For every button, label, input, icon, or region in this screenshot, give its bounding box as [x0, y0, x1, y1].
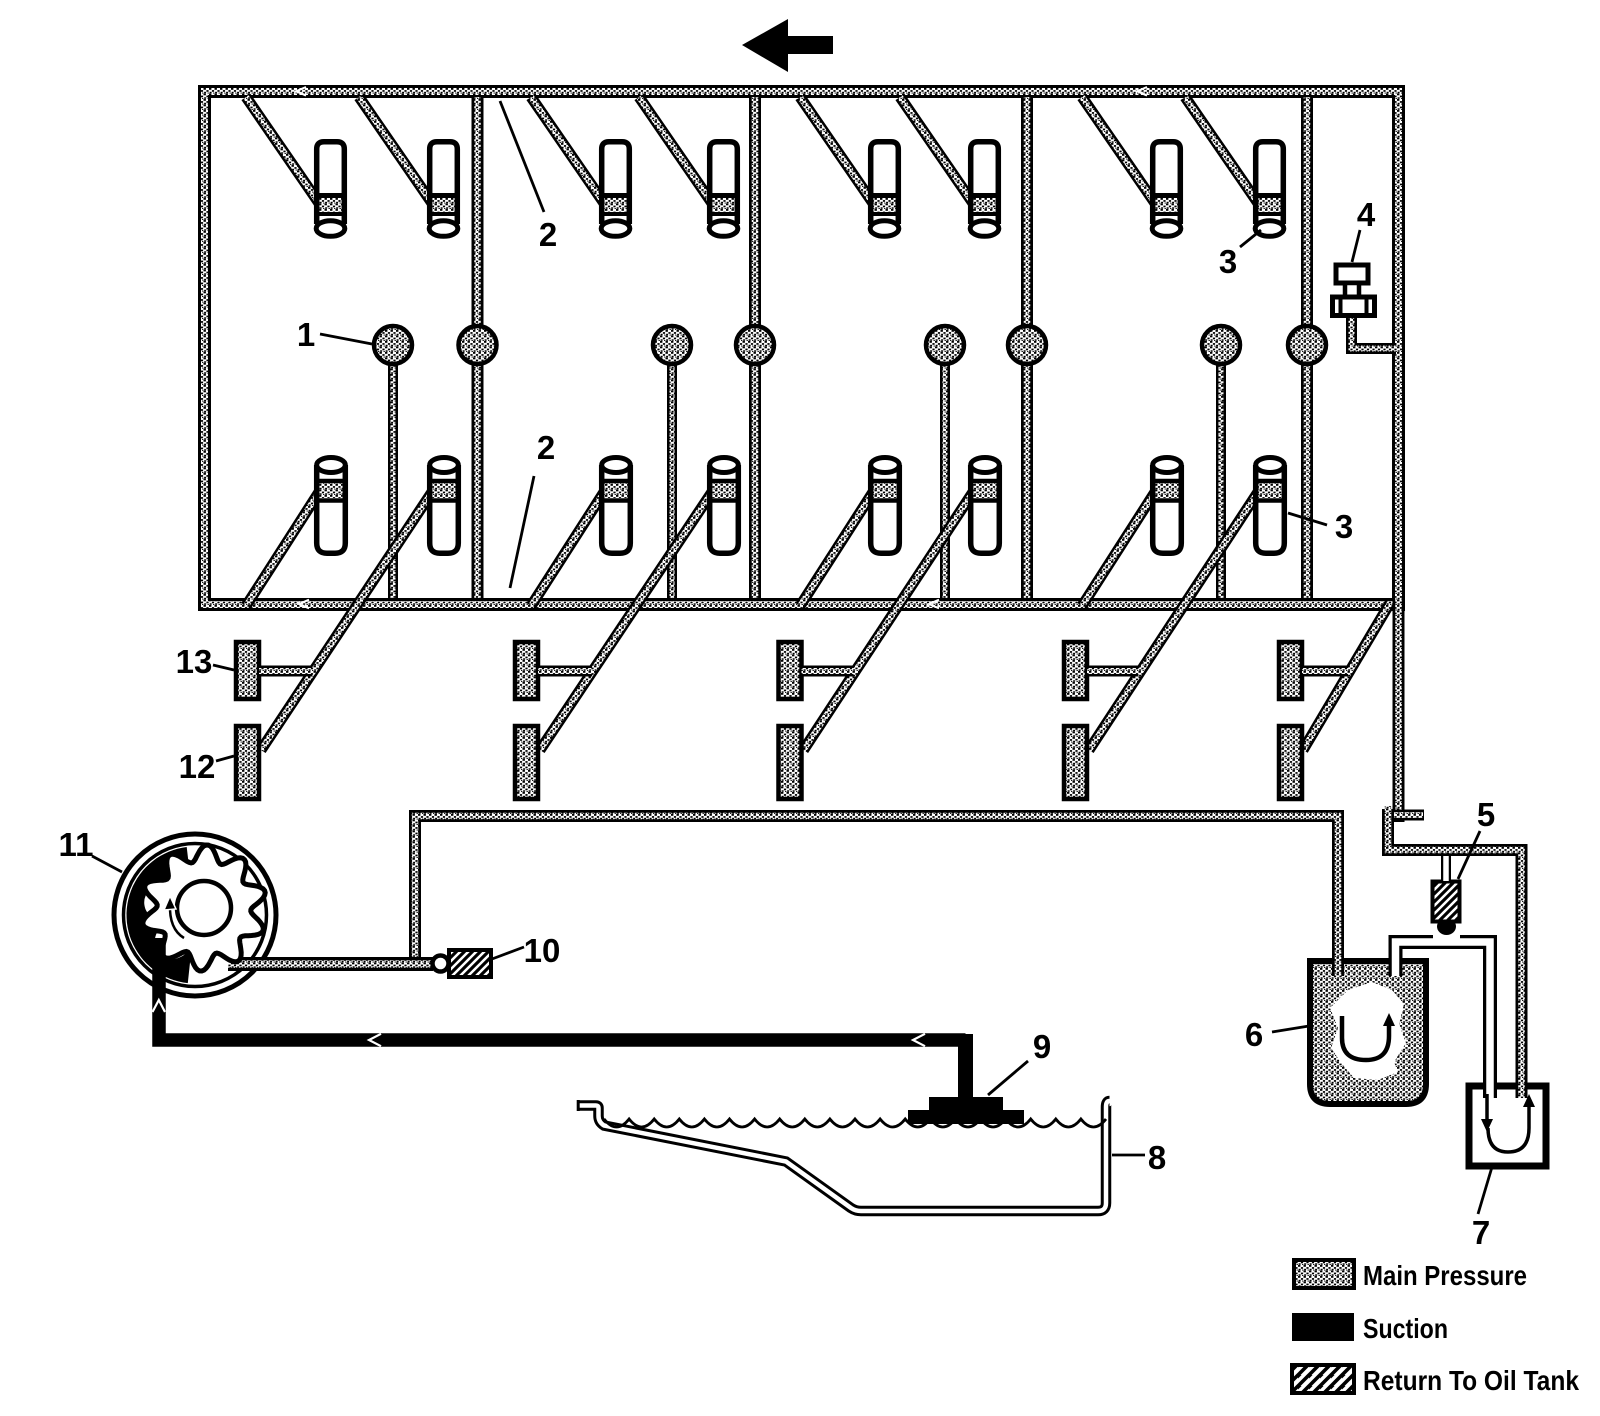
wire: lifter feed pipe cell 2-1 (top bank): [531, 97, 606, 206]
wire: main oil gallery (pump riser + horizontal run + filter feed): [415, 816, 1338, 965]
node: oil level wavy line: [604, 1119, 1106, 1127]
relief valve spring 10: [449, 950, 491, 977]
wire: lifter feed pipe cell 1-1 (top bank): [246, 97, 321, 206]
wire: lifter feed pipe cell 1-1 (bottom bank): [246, 489, 321, 606]
svg-text:6: 6: [1245, 1016, 1263, 1053]
wire: block right wall gallery (upper): [1393, 600, 1405, 822]
svg-text:3: 3: [1219, 243, 1237, 280]
svg-text:Suction: Suction: [1363, 1313, 1448, 1344]
wire: lifter feed pipe cell 3-2 (top bank): [900, 97, 975, 206]
oil pan 8: [577, 1100, 1110, 1211]
wire: lifter feed pipe cell 2-2 (top bank): [639, 97, 714, 206]
wire: plugged cross drilling stub: [1394, 810, 1424, 821]
valve lifter 1 top bank (item 3): [315, 142, 346, 237]
flow direction arrow (front of engine): [742, 19, 833, 72]
label 4 leader: [1352, 230, 1360, 262]
wire: sensor 4 connection to right gallery: [1352, 318, 1397, 349]
wire: cooler outlet overlay: [1516, 1070, 1528, 1098]
camshaft bearing 13 (group 1): [236, 642, 259, 699]
crankshaft main bearing 12 (group 4): [1064, 726, 1087, 799]
wire: main bearing feed pipe group 3: [804, 489, 976, 750]
label 9 leader: [988, 1061, 1028, 1095]
label 3 leader: [1288, 513, 1327, 525]
legend swatch: suction: [1292, 1313, 1354, 1341]
wire: bypass valve branch pipe: [1441, 856, 1451, 881]
label 8 leader: [1112, 1154, 1145, 1157]
wire: filter outlet line to oil cooler: [1396, 942, 1491, 1090]
crankshaft main bearing 12 (group 2): [515, 726, 538, 799]
legend swatch: return to oil tank: [1292, 1365, 1354, 1393]
valve lifter 7 bottom bank (item 3): [1151, 458, 1183, 554]
node: bypass valve seat gap: [1433, 930, 1460, 939]
pushrod ball socket 2 (item 1): [459, 326, 497, 364]
svg-text:1: 1: [297, 316, 315, 353]
wire: main bearing feed pipe group 1: [261, 489, 434, 750]
valve lifter 2 top bank (item 3): [428, 142, 459, 237]
label 5 leader: [1458, 831, 1480, 879]
bypass valve spring 5: [1433, 882, 1460, 922]
oil pump 11 drive gear: [143, 845, 265, 971]
wire: lifter feed pipe cell 1-2 (top bank): [359, 97, 434, 206]
wire: camshaft bearing stub group 3: [802, 666, 854, 677]
camshaft bearing 13 (group 2): [515, 642, 538, 699]
valve lifter 1 bottom bank (item 3): [315, 458, 347, 554]
label 7 leader: [1478, 1167, 1492, 1214]
svg-text:Main Pressure: Main Pressure: [1363, 1260, 1527, 1291]
svg-text:9: 9: [1033, 1028, 1051, 1065]
label 13 leader: [213, 665, 234, 670]
node: suction flow arrow left 2: [913, 1034, 925, 1046]
crankshaft main bearing 12 (group 1): [236, 726, 259, 799]
wire: cooler inlet overlay: [1483, 1070, 1497, 1098]
valve lifter 5 top bank (item 3): [869, 142, 900, 237]
node: bottom rail flow arrow 1: [299, 600, 309, 609]
wire: lifter feed pipe cell 3-1 (bottom bank): [800, 489, 875, 606]
valve lifter 5 bottom bank (item 3): [869, 458, 901, 554]
valve lifter 2 bottom bank (item 3): [428, 458, 460, 554]
wire: lifter feed pipe cell 3-1 (top bank): [800, 97, 875, 206]
wire: camshaft bearing stub group 4: [1087, 666, 1139, 677]
svg-text:7: 7: [1472, 1214, 1490, 1251]
bypass valve ball 5: [1437, 918, 1456, 935]
svg-text:Return To Oil Tank: Return To Oil Tank: [1363, 1365, 1579, 1396]
label 2 leader: [500, 101, 544, 212]
valve lifter 6 bottom bank (item 3): [969, 458, 1001, 554]
valve lifter 3 bottom bank (item 3): [600, 458, 632, 554]
svg-text:8: 8: [1148, 1139, 1166, 1176]
svg-text:2: 2: [539, 216, 557, 253]
svg-text:5: 5: [1477, 796, 1495, 833]
oil pump 11 rotation arrow: [164, 896, 184, 938]
wire: main bearing feed pipe group 5: [1303, 603, 1390, 750]
oil pressure sensor 4: [1333, 265, 1375, 316]
valve lifter 4 top bank (item 3): [708, 142, 739, 237]
wire: main bearing feed pipe group 2: [540, 489, 714, 750]
wire: cylinder head feed line cell 2: [749, 97, 761, 598]
label 2 leader: [510, 476, 534, 588]
oil pump 11 outer housing: [114, 834, 276, 996]
relief valve ball 10: [433, 956, 449, 972]
wire: lifter feed pipe cell 4-1 (bottom bank): [1082, 489, 1157, 606]
label 6 leader: [1272, 1026, 1309, 1032]
node: top rail flow arrow 1: [296, 87, 306, 96]
wire: cylinder head feed line cell 3: [1021, 97, 1033, 598]
valve lifter 6 top bank (item 3): [969, 142, 1000, 237]
valve lifter 4 bottom bank (item 3): [708, 458, 740, 554]
svg-text:13: 13: [176, 643, 213, 680]
label 11 leader: [92, 856, 122, 872]
valve lifter 3 top bank (item 3): [600, 142, 631, 237]
oil pump 11 outer rotor crescent: [127, 847, 193, 983]
svg-text:2: 2: [537, 429, 555, 466]
valve lifter 8 top bank (item 3): [1254, 142, 1285, 237]
node: bottom rail flow arrow 2: [929, 600, 939, 609]
label 12 leader: [216, 756, 234, 761]
pushrod ball socket 5 (item 1): [926, 326, 964, 364]
oil filter 6: [1310, 961, 1426, 1104]
oil cooler 7: [1469, 1086, 1546, 1166]
pushrod ball socket 8 (item 1): [1288, 326, 1326, 364]
wire: suction line (pump pickup): [159, 938, 966, 1040]
oil pickup screen 9: [908, 1097, 1024, 1124]
oil cooler 7 flow arrows: [1481, 1094, 1535, 1152]
wire: lifter feed pipe cell 4-1 (top bank): [1082, 97, 1157, 206]
wire: pushrod oil passage cell 1: [388, 350, 398, 598]
crankshaft main bearing 12 (group 3): [779, 726, 802, 799]
wire: main bearing feed pipe group 4: [1089, 489, 1260, 750]
pushrod ball socket 4 (item 1): [736, 326, 774, 364]
oil pump 11 gear center hole: [177, 881, 231, 935]
wire: pushrod oil passage cell 3: [940, 350, 950, 598]
pushrod ball socket 7 (item 1): [1202, 326, 1240, 364]
camshaft bearing 13 (group 4): [1064, 642, 1087, 699]
wire: camshaft bearing stub group 2: [538, 666, 592, 677]
camshaft bearing 13 (group 5): [1279, 642, 1302, 699]
pushrod ball socket 3 (item 1): [653, 326, 691, 364]
camshaft bearing 13 (group 3): [779, 642, 802, 699]
label 1 leader: [320, 334, 372, 344]
node: suction flow arrow left 1: [369, 1034, 381, 1046]
wire: pushrod oil passage cell 4: [1216, 350, 1226, 598]
wire: cylinder head feed line cell 1: [472, 97, 484, 598]
pushrod ball socket 6 (item 1): [1008, 326, 1046, 364]
wire: lifter feed pipe cell 2-1 (bottom bank): [531, 489, 606, 606]
crankshaft main bearing 12 (group 5): [1279, 726, 1302, 799]
valve lifter 7 top bank (item 3): [1151, 142, 1182, 237]
wire: pushrod oil passage cell 2: [667, 350, 677, 598]
svg-text:3: 3: [1335, 508, 1353, 545]
wire: cooler return line into block: [1388, 806, 1522, 1090]
wire: camshaft bearing stub group 1: [259, 666, 312, 677]
legend swatch: main pressure: [1294, 1260, 1354, 1288]
svg-text:12: 12: [179, 748, 216, 785]
pushrod ball socket 1 (item 1): [374, 326, 412, 364]
engine block / cylinder head oil gallery outline: [205, 92, 1399, 605]
label 10 leader: [492, 947, 524, 959]
oil filter 6 element (white blob + flow arrow): [1330, 982, 1406, 1080]
node: top rail flow arrow 2: [1137, 87, 1147, 96]
wire: filter inlet overlay: [1332, 943, 1344, 976]
wire: cylinder head feed line cell 4: [1301, 97, 1313, 598]
wire: camshaft bearing stub group 5: [1302, 666, 1348, 677]
wire: pump outlet pipe to relief valve / gallery riser: [228, 957, 433, 971]
svg-text:10: 10: [524, 932, 561, 969]
node: suction flow arrow up: [153, 1000, 166, 1012]
svg-text:4: 4: [1357, 196, 1376, 233]
label 3 leader: [1240, 230, 1261, 247]
valve lifter 8 bottom bank (item 3): [1254, 458, 1286, 554]
wire: suction line pickup drop: [958, 1034, 973, 1100]
svg-text:11: 11: [59, 826, 94, 863]
wire: lifter feed pipe cell 4-2 (top bank): [1185, 97, 1260, 206]
